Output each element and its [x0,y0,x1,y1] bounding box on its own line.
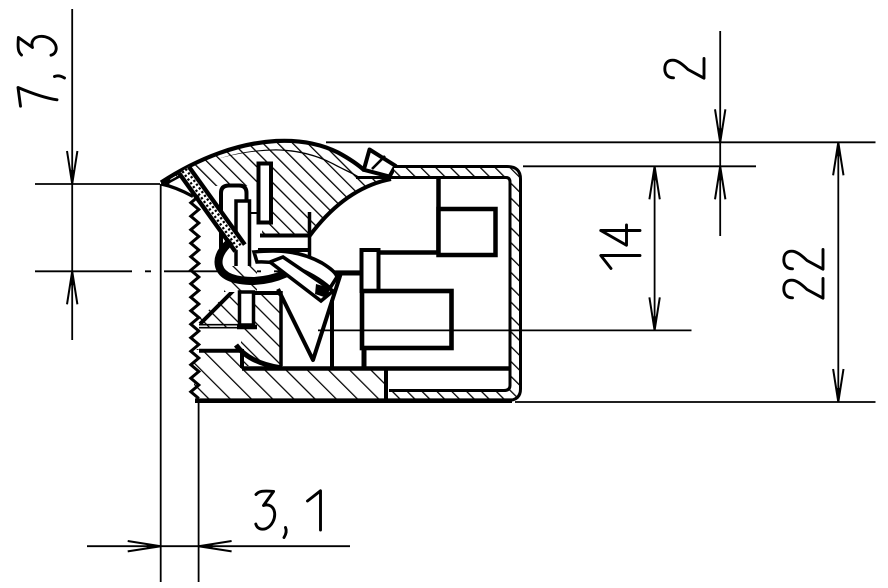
arrow dim 2 bottom [715,166,725,199]
dimension line 14 [654,166,656,330]
clamp arm 2 [270,257,333,301]
rect R1 [439,209,496,255]
arrow dim 7,3 top [67,151,77,184]
dimension line 7,3 [71,9,73,340]
curl inner hatch [224,266,257,292]
dimension line 22 [837,142,839,402]
arrow dim 22 top [833,142,843,175]
extension line x=160 (lip tip) [160,184,162,582]
cage ledge line [375,250,441,255]
long ledge line over wire slot [242,366,509,371]
hood outer/inner arc hatched band [161,141,365,185]
serrated clamping face [191,196,199,399]
cage vertical [436,178,441,253]
left mid hatched zone [194,291,281,366]
extension line lower contact level [318,329,692,331]
arrow dim 14 bottom [649,297,659,330]
junction blob [315,284,330,298]
arrow dim 14 top [649,166,659,199]
arrow dim 22 bottom [833,369,843,402]
arrow dim 3,1 left [128,541,161,551]
extension line x=198 (serrated face) [198,402,200,582]
dim text 22 [784,279,823,299]
extension line cage top level [523,165,756,167]
dim text 14 [601,256,640,269]
clamp arm 1 [254,251,337,288]
small tab rect [362,250,379,291]
bottom bar hatched [194,351,386,399]
dimension line 3,1 [87,545,350,547]
arrow dim 7,3 bottom [67,271,77,304]
dimension line 2 [719,31,721,236]
hatch zone edge line [252,291,281,295]
extension line lip top level [35,183,160,185]
white step bar [260,238,309,249]
extension line bottom level [515,401,876,403]
center line [35,270,362,272]
hood body hatched block [190,151,391,237]
spring main band [179,166,246,252]
spring hook curl [219,241,309,281]
arrow dim 2 top [715,109,725,142]
lower guide slot [240,292,254,325]
funnel V guide [278,273,341,360]
extension line top (hood peak level) [326,141,876,143]
dim text 3,1 [256,491,275,529]
dim text 7,3 [18,88,57,107]
arrow dim 3,1 right [199,541,232,551]
dim text 2 [665,59,704,79]
cage wall hatched band [389,167,521,401]
body bottom edge [195,398,512,403]
wire channel piece [221,186,247,253]
rect R2 [362,291,452,348]
lower slot tab [236,201,250,273]
spring arc through bar [236,345,282,368]
upper slot tab [259,164,272,223]
latch tab [364,150,396,177]
